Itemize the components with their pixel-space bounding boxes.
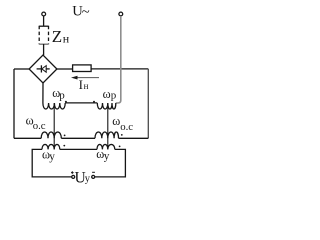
polarity dot ωо.с right	[121, 134, 123, 136]
load impedance Zн (dashed box)	[39, 25, 48, 27]
winding ωо.с right	[95, 132, 119, 138]
terminal top-left (U~ input)	[42, 12, 46, 16]
terminal top-right (U~ input)	[119, 12, 123, 16]
winding ωу left	[42, 144, 60, 149]
svg-text:н: н	[84, 81, 89, 91]
svg-text:~: ~	[82, 4, 90, 20]
right feedback rail down	[147, 69, 149, 138]
wire right rail to right ωо.с	[119, 137, 149, 139]
bridge rectifier VD (diamond)	[29, 55, 57, 83]
wire between ωо.с windings	[61, 137, 95, 139]
polarity dot ωр right	[93, 101, 95, 103]
svg-text:ω: ω	[112, 114, 120, 128]
wire bridge right vertex to resistor	[57, 68, 73, 70]
wire bridge left vertex to left rail	[14, 68, 29, 70]
wire resistor to right rail	[91, 68, 149, 70]
polarity dot ωр left	[65, 101, 67, 103]
wire top-right terminal down to right ωр	[116, 16, 121, 103]
winding ωу right	[97, 144, 115, 149]
terminal Uу −	[92, 175, 95, 178]
wire between ωу windings	[60, 148, 97, 150]
plus sign	[71, 171, 74, 174]
winding ωо.с left	[41, 132, 61, 138]
wire terminal to Zн	[43, 16, 45, 26]
winding ωр right	[97, 103, 116, 109]
wire left rail to left ωо.с	[14, 137, 41, 139]
svg-text:р: р	[59, 89, 65, 101]
wire bridge bottom to left ωр, winding ωр left	[43, 83, 65, 109]
polarity dot ωу right	[119, 146, 121, 148]
right core	[107, 103, 109, 149]
svg-text:о.с: о.с	[33, 120, 46, 132]
arrow Iн (load current)	[77, 77, 100, 79]
left rail down	[13, 69, 15, 138]
wire between ωр windings	[65, 102, 97, 104]
svg-text:у: у	[49, 151, 55, 163]
wire Zн to bridge	[43, 44, 45, 55]
svg-text:у: у	[85, 174, 91, 185]
minus sign	[92, 171, 95, 173]
polarity dot ωо.с left	[64, 135, 66, 137]
resistor in load circuit	[73, 65, 92, 72]
wire left ωу to bottom-left corner and + terminal	[32, 149, 71, 177]
svg-text:ω: ω	[103, 87, 111, 101]
svg-text:I: I	[79, 77, 83, 92]
wire right ωу to bottom-right corner and − terminal	[95, 149, 126, 177]
svg-text:у: у	[104, 151, 110, 163]
svg-text:о.с: о.с	[120, 121, 133, 133]
svg-text:н: н	[63, 31, 70, 45]
terminal Uу +	[72, 175, 75, 178]
left core	[53, 103, 55, 149]
polarity dot ωу left	[63, 145, 65, 147]
svg-text:р: р	[111, 90, 117, 102]
svg-text:Z: Z	[52, 27, 62, 46]
diode symbol inside bridge	[37, 68, 42, 70]
